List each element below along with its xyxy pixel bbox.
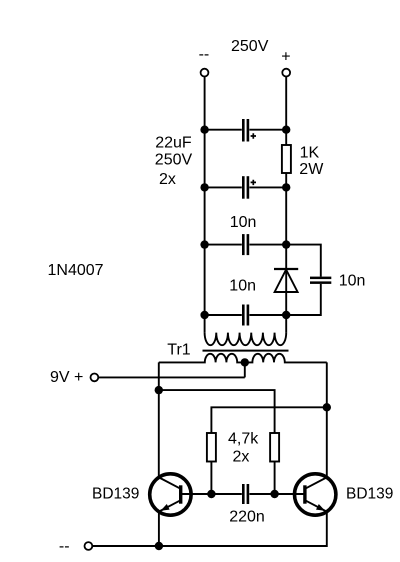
wire row 3 — [205, 244, 287, 246]
node emitter rail — [155, 542, 163, 550]
wire R3 lead down — [274, 462, 276, 495]
svg-text:--: -- — [59, 538, 70, 555]
wire left emitter to rail — [158, 512, 160, 546]
node center tap — [241, 358, 249, 366]
node base right — [270, 490, 278, 498]
node base left — [207, 490, 215, 498]
node row3 right — [282, 240, 290, 248]
wire row 4 — [205, 314, 287, 316]
terminal plus 250V — [282, 69, 290, 77]
capacitor C4 10n — [242, 305, 249, 326]
transformer Tr1 secondary winding — [159, 354, 327, 363]
wire right column mid segment — [285, 173, 287, 268]
svg-text:2x: 2x — [159, 171, 176, 188]
transformer Tr1 primary winding — [205, 333, 287, 346]
capacitor C2 22uF — [242, 176, 256, 199]
svg-text:1N4007: 1N4007 — [48, 262, 104, 279]
capacitor C3 10n — [242, 234, 249, 255]
wire cross coupling upper — [159, 390, 275, 433]
capacitor C5 10n parallel diode — [310, 277, 331, 284]
wire secondary left leg down — [158, 362, 160, 477]
node B right collector net — [323, 403, 331, 411]
label 4,7k 2x — [228, 430, 259, 465]
transistor Q2 BD139 — [295, 474, 336, 515]
wire right column lower segment — [285, 268, 287, 333]
capacitor C1 22uF — [242, 119, 256, 142]
diode D1 1N4007 — [274, 269, 298, 292]
node row1 right — [282, 126, 290, 134]
wire R2 lead down — [210, 462, 212, 495]
svg-text:250V: 250V — [155, 152, 193, 169]
svg-text:BD139: BD139 — [346, 486, 393, 503]
resistor R2 4,7k — [207, 433, 216, 462]
svg-text:+: + — [281, 49, 290, 66]
wire base row — [181, 493, 305, 495]
resistor R1 1K 2W — [282, 145, 291, 173]
terminal 9V — [91, 374, 99, 382]
node row4 left — [200, 311, 208, 319]
wire row 1 — [205, 129, 287, 131]
wire row 2 — [205, 186, 287, 188]
svg-text:1K: 1K — [300, 144, 320, 161]
svg-text:9V +: 9V + — [50, 369, 83, 386]
wire center tap — [244, 362, 246, 377]
wire left column vertical — [204, 77, 206, 333]
capacitor C6 220n — [242, 484, 249, 504]
node A left collector net — [155, 386, 163, 394]
svg-text:10n: 10n — [339, 273, 366, 290]
svg-text:22uF: 22uF — [155, 134, 192, 151]
node row3 left — [200, 240, 208, 248]
svg-text:10n: 10n — [230, 214, 257, 231]
svg-text:4,7k: 4,7k — [228, 430, 259, 447]
terminal minus 250V — [201, 69, 209, 77]
wire branch parallel cap — [286, 245, 321, 315]
node row4 right — [282, 311, 290, 319]
wire right emitter to rail — [92, 512, 326, 546]
label 22uF 250V 2x — [155, 134, 193, 188]
svg-text:--: -- — [199, 46, 210, 63]
svg-text:220n: 220n — [229, 509, 265, 526]
svg-text:Tr1: Tr1 — [167, 341, 191, 358]
wire 9V feed — [98, 376, 244, 378]
terminal minus bottom — [85, 542, 93, 550]
svg-text:2x: 2x — [233, 448, 250, 465]
transistor Q1 BD139 — [150, 474, 191, 515]
wire secondary right leg down — [326, 362, 328, 477]
node row2 left — [200, 183, 208, 191]
svg-text:10n: 10n — [229, 277, 256, 294]
node row2 right — [282, 183, 290, 191]
svg-text:BD139: BD139 — [92, 486, 139, 503]
transformer core — [203, 350, 289, 352]
resistor R3 4,7k — [270, 433, 279, 462]
svg-text:2W: 2W — [299, 161, 324, 178]
svg-text:250V: 250V — [231, 38, 269, 55]
node row1 left — [200, 126, 208, 134]
wire right column top segment — [285, 77, 287, 145]
wire cross coupling lower — [211, 407, 326, 433]
label 1K 2W — [299, 144, 324, 177]
